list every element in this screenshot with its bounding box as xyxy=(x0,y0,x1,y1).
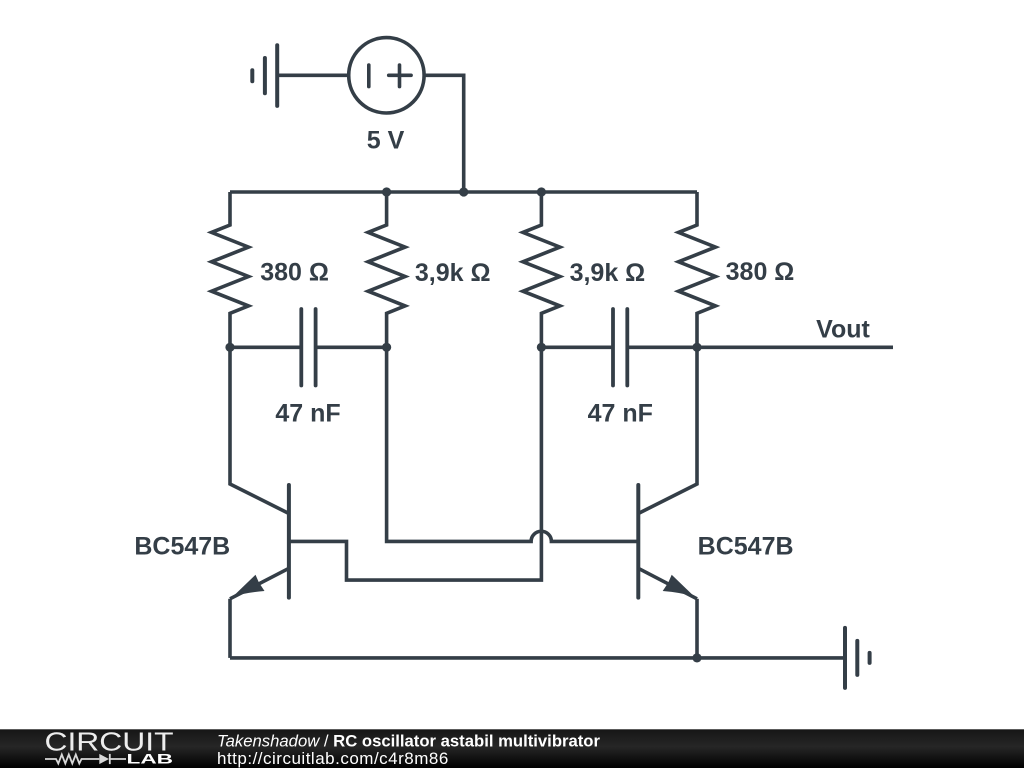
wire V1 positive terminal to top rail xyxy=(425,75,463,192)
svg-text:380 Ω: 380 Ω xyxy=(260,259,329,287)
node rail/V1 junction xyxy=(459,187,468,196)
resistor R2 3.9k ohm (left middle) xyxy=(368,192,405,347)
svg-text:3,9k Ω: 3,9k Ω xyxy=(570,259,646,287)
svg-text:3,9k Ω: 3,9k Ω xyxy=(415,259,491,287)
wire C2 right plate to node D xyxy=(627,345,697,349)
wire GND1 to V1 negative terminal xyxy=(277,74,348,78)
voltage source V1 5V xyxy=(349,38,424,113)
ground GND2 (bottom right) xyxy=(845,628,870,688)
svg-text:47 nF: 47 nF xyxy=(588,400,653,428)
node E (Q2 emitter / ground rail) xyxy=(692,653,701,662)
wire node D to Q2 collector xyxy=(638,347,697,513)
wire node A to Q1 collector xyxy=(230,347,289,513)
wire Vout output xyxy=(697,345,893,349)
CircuitLab logo resistor-diode glyph xyxy=(45,754,126,764)
transistor Q1 BC547B (left, mirrored) xyxy=(230,485,289,599)
resistor R3 3.9k ohm (right middle) xyxy=(523,192,560,347)
node B (R2/C1/Q2 base feed) xyxy=(382,343,391,352)
wire Q1 base to node C (cross coupling) xyxy=(289,347,542,580)
wire node C to C2 left plate xyxy=(541,345,613,349)
svg-text:Vout: Vout xyxy=(816,316,870,344)
node rail/R2 junction xyxy=(382,187,391,196)
svg-text:47 nF: 47 nF xyxy=(275,400,340,428)
ground GND1 (top left) xyxy=(252,45,277,106)
wire node A to C1 left plate xyxy=(230,345,301,349)
node rail/R3 junction xyxy=(537,187,546,196)
wire node B to Q2 base with hop over xyxy=(387,347,639,541)
node D (R4/C2/Q2 collector/Vout) xyxy=(692,343,701,352)
svg-text:380 Ω: 380 Ω xyxy=(726,258,795,286)
svg-text:http://circuitlab.com/c4r8m86: http://circuitlab.com/c4r8m86 xyxy=(217,749,449,768)
svg-text:LAB: LAB xyxy=(127,751,174,766)
wire bottom emitter rail to ground xyxy=(230,656,845,660)
svg-text:BC547B: BC547B xyxy=(698,533,794,561)
capacitor C2 47nF xyxy=(613,309,627,386)
svg-text:BC547B: BC547B xyxy=(134,533,230,561)
wire top supply rail xyxy=(230,190,697,194)
resistor R4 380 ohm (right) xyxy=(679,192,716,347)
resistor R1 380 ohm (left) xyxy=(212,192,249,347)
svg-text:5 V: 5 V xyxy=(367,127,405,155)
wire Q1 emitter down xyxy=(228,599,232,658)
transistor Q2 BC547B (right) xyxy=(638,485,697,599)
node A (R1/C1/Q1 collector) xyxy=(225,343,234,352)
wire C1 right plate to node B xyxy=(316,345,387,349)
capacitor C1 47nF xyxy=(301,309,315,386)
node C (R3/C2/Q1 base feed) xyxy=(537,343,546,352)
wire Q2 emitter down xyxy=(695,599,699,658)
footer bar xyxy=(0,729,1024,768)
svg-text:Takenshadow / RC oscillator as: Takenshadow / RC oscillator astabil mult… xyxy=(217,731,600,750)
